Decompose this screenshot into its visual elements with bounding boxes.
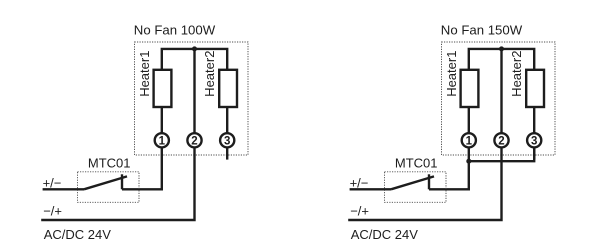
svg-text:No Fan 100W: No Fan 100W [134,22,216,37]
svg-text:No Fan 150W: No Fan 150W [441,22,523,37]
